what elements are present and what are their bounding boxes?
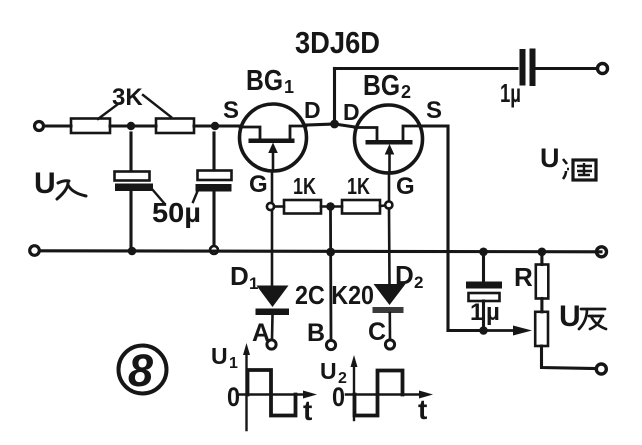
D2 lead to terminal C: [388, 313, 391, 340]
wire source branch to pot arrow junction: [448, 329, 484, 332]
svg-text:U: U: [559, 300, 581, 333]
svg-text:D: D: [395, 260, 414, 290]
open node circle C2 on bottom rail: [210, 246, 218, 254]
svg-text:0: 0: [332, 382, 345, 412]
capacitor 1u top plate (solid): [466, 282, 502, 289]
svg-text:U: U: [211, 343, 228, 369]
wire middle node down to bottom rail and terminal B: [329, 211, 332, 341]
BG2 gate lead down to node: [388, 173, 391, 202]
wire to coupling capacitor: [335, 67, 518, 70]
capacitor C1 50u bottom plate: [116, 184, 153, 191]
svg-text:1: 1: [284, 77, 294, 97]
resistor R 3K (second): [156, 119, 194, 134]
svg-text:t: t: [418, 394, 427, 425]
svg-text:B: B: [307, 319, 325, 347]
wire 1K left to gate node: [274, 205, 284, 208]
label 50u leader lines: [152, 189, 198, 203]
transistor BG2 body circle: [355, 105, 423, 173]
svg-text:D: D: [343, 99, 360, 125]
u2 waveform vertical axis: [353, 362, 355, 420]
potentiometer box: [535, 312, 548, 346]
node dot (S node with C2): [211, 122, 219, 130]
wire BG2 source right then down: [423, 126, 449, 331]
resistor 1K (right): [342, 200, 380, 214]
node dot R on rail: [538, 248, 547, 257]
BG1 source lead inside: [240, 127, 260, 139]
gate node BG1 (open circle): [267, 203, 274, 210]
label 3K leader lines: [98, 95, 171, 119]
u1 waveform horizontal axis: [238, 393, 308, 396]
capacitor C2 50u lead: [212, 133, 215, 170]
capacitor C2 50u top plate: [198, 171, 232, 181]
svg-text:G: G: [396, 173, 415, 200]
u1 square wave: [248, 370, 296, 416]
resistor R 3K (first): [71, 119, 110, 134]
gate node BG2 (open circle): [385, 201, 392, 208]
terminal A circle: [267, 340, 276, 349]
svg-text:1: 1: [229, 355, 238, 372]
wire R2 to BG1 source: [194, 124, 240, 127]
wire 1K right to gate node: [380, 204, 385, 207]
wire BG2 gate node down to diode D2: [388, 209, 391, 285]
BG1 channel bar: [249, 139, 295, 144]
wire drain node to BG2: [335, 124, 356, 127]
lower output terminal: [596, 364, 606, 374]
transistor BG1 body circle: [240, 104, 307, 171]
svg-text:2C K20: 2C K20: [295, 280, 374, 310]
u1 waveform vertical axis: [245, 350, 247, 430]
svg-text:D: D: [304, 97, 321, 123]
svg-text:3K: 3K: [112, 84, 143, 111]
svg-text:µ: µ: [486, 299, 500, 326]
svg-text:BG: BG: [363, 70, 400, 102]
u2 waveform horizontal axis: [346, 393, 424, 396]
svg-text:1K: 1K: [347, 173, 370, 199]
capacitor 1u bottom plate: [469, 293, 500, 301]
svg-text:2: 2: [414, 273, 423, 292]
bottom rail output terminal (right): [597, 247, 607, 257]
svg-text:C: C: [368, 318, 386, 346]
wire R to potentiometer: [540, 299, 543, 312]
wire BG1 drain to common drain node: [307, 124, 335, 125]
svg-text:S: S: [223, 97, 239, 124]
svg-text:50µ: 50µ: [152, 197, 201, 228]
BG2 drain lead inside: [355, 128, 377, 141]
capacitor C1 50u lead: [129, 133, 132, 171]
bottom rail wire: [40, 251, 601, 252]
wire between 1K resistors: [321, 205, 342, 208]
svg-text:U: U: [540, 143, 560, 173]
wire pot bottom to lower output terminal: [542, 346, 596, 369]
resistor R vertical box: [536, 265, 549, 299]
D1 lead to terminal A: [271, 315, 274, 340]
diode D1 triangle: [257, 286, 289, 308]
input terminal top-left: [35, 122, 44, 131]
svg-text:0: 0: [227, 382, 240, 412]
node dot (junction of 3K resistors and C1): [127, 122, 135, 130]
svg-text:R: R: [514, 262, 533, 292]
node dot at bottom of 1u cap: [479, 326, 488, 335]
svg-text:1K: 1K: [293, 173, 316, 199]
resistor 1K (left): [284, 200, 321, 214]
wire R1 to R2: [110, 124, 156, 127]
wire rail to resistor R: [540, 252, 543, 265]
arrow to potentiometer wiper: [488, 329, 516, 332]
common drain node dot: [330, 120, 339, 129]
terminal C circle: [385, 340, 394, 349]
capacitor 1u (bottom) upper lead: [482, 252, 485, 281]
svg-text:D: D: [230, 261, 249, 291]
diode D2 triangle: [374, 284, 406, 305]
diode D2 cathode bar: [373, 307, 404, 313]
node dot C1 on bottom rail: [128, 247, 137, 256]
svg-text:1: 1: [249, 274, 258, 293]
svg-text:8: 8: [128, 345, 153, 396]
wire input to R1: [44, 124, 71, 127]
svg-text:S: S: [426, 97, 442, 124]
capacitor C1 lower lead: [129, 191, 132, 248]
svg-text:U: U: [320, 358, 337, 384]
wire drain node up: [333, 69, 336, 125]
coupling capacitor 1u plates (top right): [523, 52, 533, 84]
BG1 drain lead inside: [290, 126, 306, 139]
wire BG1 gate node down to diode D1: [271, 210, 274, 286]
node dot 1u cap on rail: [479, 248, 488, 257]
capacitor C2 lower lead: [212, 191, 215, 246]
BG1 gate arrow: [272, 150, 275, 170]
BG2 source lead inside: [403, 126, 422, 140]
output terminal (top right): [598, 64, 608, 74]
svg-text:A: A: [252, 319, 270, 347]
svg-text:2: 2: [401, 82, 411, 102]
figure number circle 8: [119, 346, 167, 394]
svg-text:3DJ6D: 3DJ6D: [295, 25, 380, 60]
node dot B on bottom rail: [326, 248, 335, 257]
BG2 channel bar: [366, 140, 413, 145]
svg-text:1: 1: [470, 299, 483, 326]
svg-text:1µ: 1µ: [500, 78, 521, 108]
u2 square wave: [355, 371, 403, 416]
wire cap to output terminal: [536, 67, 597, 70]
svg-text:t: t: [303, 395, 312, 426]
BG2 gate arrow: [388, 152, 391, 172]
middle node dot between 1K resistors: [326, 202, 335, 211]
svg-text:G: G: [249, 171, 268, 198]
terminal B circle: [326, 340, 335, 349]
BG1 gate lead down to node: [271, 171, 274, 203]
capacitor C1 50u top plate: [115, 172, 150, 181]
svg-text:BG: BG: [246, 65, 283, 97]
svg-text:U: U: [34, 167, 56, 200]
diode D1 cathode bar: [256, 309, 290, 316]
bottom rail terminal (left): [30, 246, 40, 256]
capacitor 1u lower lead: [482, 301, 485, 331]
capacitor C2 50u bottom plate: [196, 185, 231, 192]
